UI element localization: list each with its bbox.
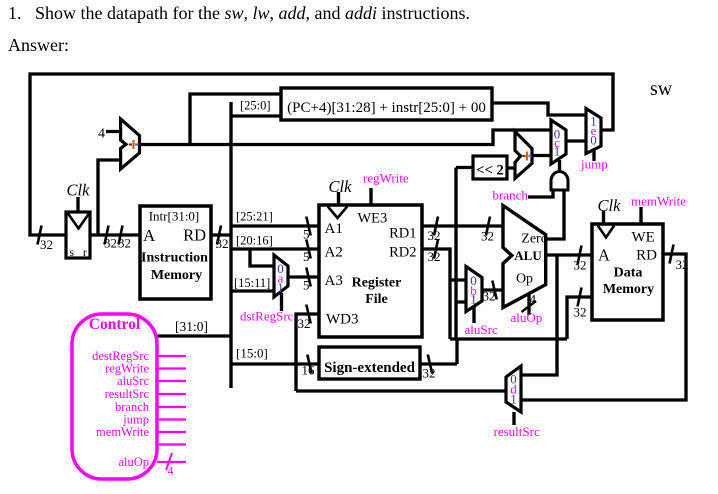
svg-text:Memory: Memory [151,268,202,283]
svg-text:Clk: Clk [329,177,353,196]
svg-text:Op: Op [516,272,533,287]
svg-text:A: A [143,226,156,245]
svg-text:WD3: WD3 [326,312,359,328]
svg-text:resultSrc: resultSrc [494,424,540,439]
svg-text:Instruction: Instruction [141,251,208,266]
svg-text:memWrite: memWrite [631,194,686,209]
svg-text:<< 2: << 2 [476,163,503,179]
svg-text:[25:21]: [25:21] [236,210,273,224]
svg-text:Control: Control [89,316,141,333]
svg-text:[20:16]: [20:16] [236,234,273,248]
svg-text:32: 32 [676,257,689,272]
svg-text:A3: A3 [325,273,343,289]
svg-text:RD: RD [183,226,206,245]
svg-text:4: 4 [530,292,537,307]
svg-text:32: 32 [216,236,229,251]
svg-text:32: 32 [483,289,496,304]
svg-text:RD1: RD1 [389,226,416,242]
svg-text:32: 32 [118,236,131,251]
svg-text:1: 1 [510,392,517,407]
svg-text:A1: A1 [325,221,343,237]
svg-text:RD2: RD2 [389,245,416,261]
svg-text:32: 32 [104,236,117,251]
svg-text:16: 16 [302,363,316,378]
svg-text:r: r [83,247,87,259]
svg-text:s: s [70,247,75,259]
svg-text:[31:0]: [31:0] [175,319,208,334]
svg-text:32: 32 [574,258,587,273]
svg-text:32: 32 [428,249,441,264]
svg-text:Clk: Clk [67,181,91,200]
svg-text:32: 32 [423,366,436,381]
svg-text:0: 0 [590,133,597,148]
svg-text:sw: sw [650,78,673,100]
svg-text:WE3: WE3 [358,211,388,227]
svg-text:ALU: ALU [514,248,542,263]
svg-text:Register: Register [352,276,402,291]
svg-text:5: 5 [303,249,310,264]
svg-text:[25:0]: [25:0] [240,99,271,113]
svg-text:4: 4 [168,464,174,478]
svg-text:A: A [598,246,610,265]
svg-text:1. Show the datapath for the: 1. Show the datapath for the sw, lw, add… [8,3,470,23]
svg-text:[15:11]: [15:11] [234,276,270,290]
svg-text:aluOp: aluOp [118,455,149,469]
svg-text:32: 32 [298,316,311,331]
svg-text:1: 1 [470,292,477,307]
svg-text:32: 32 [574,305,587,320]
svg-text:1: 1 [277,280,284,295]
svg-text:32: 32 [481,229,494,244]
svg-text:File: File [365,292,388,307]
svg-text:[15:0]: [15:0] [236,346,268,361]
svg-text:(PC+4)[31:28] + instr[25:0] +: (PC+4)[31:28] + instr[25:0] + 00 [287,100,486,116]
svg-text:RD: RD [636,248,657,264]
svg-text:jump: jump [580,157,608,172]
svg-text:1: 1 [554,144,561,159]
svg-text:dstRegSrc: dstRegSrc [240,309,294,324]
svg-text:Data: Data [614,266,643,281]
svg-text:Sign-extended: Sign-extended [324,360,416,376]
svg-text:5: 5 [303,227,310,242]
svg-text:Memory: Memory [603,282,654,297]
svg-text:5: 5 [303,278,310,293]
svg-text:memWrite: memWrite [96,425,149,439]
svg-text:Intr[31:0]: Intr[31:0] [149,209,200,224]
svg-text:regWrite: regWrite [363,171,409,186]
svg-text:A2: A2 [325,245,343,261]
svg-text:Clk: Clk [598,196,622,215]
svg-text:resultSrc: resultSrc [105,387,150,401]
svg-text:aluSrc: aluSrc [117,374,149,388]
svg-text:WE: WE [632,230,655,246]
svg-text:Answer:: Answer: [8,35,69,55]
svg-text:branch: branch [493,188,529,203]
svg-text:4: 4 [98,127,105,142]
svg-text:Zero: Zero [521,232,547,247]
svg-text:aluOp: aluOp [511,310,543,325]
svg-text:aluSrc: aluSrc [465,322,498,337]
svg-text:32: 32 [40,237,53,252]
